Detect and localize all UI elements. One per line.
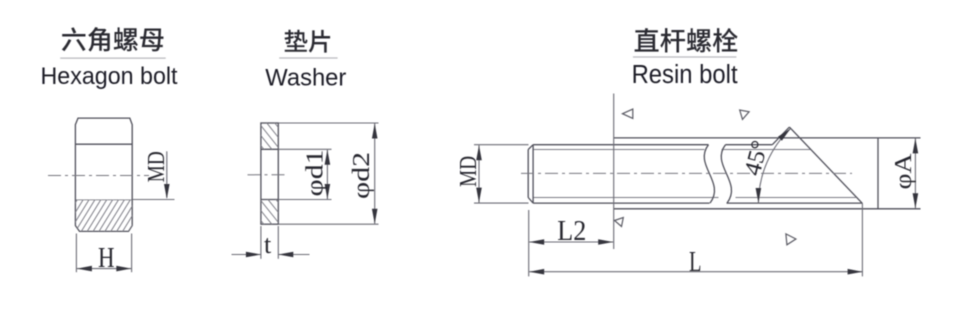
bolt MD dimension line (476, 145, 482, 202)
washer d2 dimension line (372, 124, 378, 224)
title: washer Chinese 垫片 (285, 30, 331, 53)
title underline (resin bolt) (633, 56, 737, 58)
title: resin bolt Chinese 直杆螺栓 (635, 28, 738, 52)
bolt break S-curve right (721, 145, 731, 203)
washer d1 extension lines (278, 148, 331, 150)
bolt thread major top edge (533, 144, 708, 146)
bolt L right extension line (861, 203, 863, 276)
bolt shank outer top edge (614, 137, 921, 139)
45deg angle arc (756, 128, 791, 203)
hex nut hatch section (51, 197, 156, 233)
svg-text:t: t (264, 230, 272, 259)
bolt thread minor top line (533, 149, 704, 151)
washer inner hole lines (261, 148, 278, 150)
bolt break S-curve left (704, 145, 714, 203)
bolt L dimension line (529, 269, 862, 275)
washer t dimension line with outside arrows (232, 252, 310, 258)
hex nut body outline (75, 118, 132, 231)
title underline (hex nut) (60, 57, 166, 59)
washer hatch bottom (234, 197, 298, 227)
washer centerline (248, 174, 289, 176)
svg-text:φd2: φd2 (349, 152, 375, 199)
bolt phiA dimension line (913, 138, 919, 208)
nut H extension lines (75, 234, 77, 273)
svg-text:MD: MD (144, 151, 170, 182)
washer hatch top (233, 121, 298, 152)
small triangle mark 1 (623, 109, 633, 118)
bolt shank outer bottom edge (614, 208, 921, 210)
bolt centerline (521, 172, 852, 174)
hex nut centerline (48, 175, 149, 177)
svg-text:φd1: φd1 (303, 150, 329, 197)
bolt left end face with chamfer (528, 145, 533, 203)
bolt L2 left extension line (528, 210, 530, 276)
nut MD dimension leader (164, 151, 170, 199)
bolt chisel hypotenuse (789, 127, 862, 203)
washer body outline (261, 123, 278, 224)
title: hex nut Chinese 六角螺母 (62, 27, 164, 51)
thread-end extension line (vertical) (613, 94, 615, 250)
svg-text:φA: φA (891, 153, 917, 190)
small triangle mark 4 (786, 234, 796, 245)
bolt end face (877, 138, 879, 209)
svg-text:45°: 45° (740, 138, 774, 179)
washer d2 extension lines (278, 122, 378, 124)
svg-text:Hexagon bolt: Hexagon bolt (41, 63, 178, 90)
bolt thread minor bottom line (533, 197, 718, 199)
svg-text:L2: L2 (557, 215, 586, 247)
washer t extension lines (260, 226, 262, 259)
small triangle mark 3 (615, 218, 624, 227)
small triangle mark 2 (740, 110, 749, 119)
bolt MD extension lines (474, 144, 529, 146)
washer d1 dimension line (325, 150, 331, 199)
bolt 45deg chisel edge (772, 127, 789, 145)
svg-text:H: H (98, 242, 115, 274)
svg-text:MD: MD (456, 156, 482, 187)
nut H dimension line (77, 266, 131, 272)
svg-text:L: L (689, 246, 702, 278)
title underline (washer) (279, 57, 337, 59)
svg-text:Washer: Washer (265, 65, 346, 92)
svg-text:Resin bolt: Resin bolt (632, 61, 738, 89)
nut MD extension line (132, 199, 174, 201)
bolt L2 dimension line (529, 239, 613, 245)
bolt thread major bottom edge (533, 202, 709, 204)
